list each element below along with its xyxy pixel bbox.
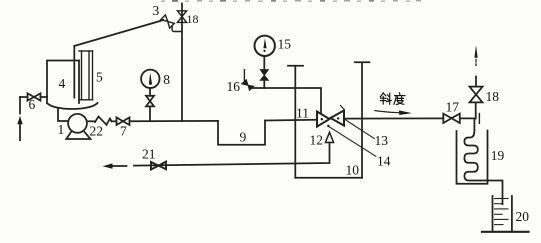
pipe: drain from valve 12: [134, 143, 330, 166]
pipe: U-dip section 9: [218, 121, 265, 145]
union tick at tee: [478, 114, 480, 124]
pipe: main line to U-dip: [130, 120, 219, 122]
valve 6: [28, 93, 35, 100]
valve 18 (right vent valve): [470, 87, 483, 95]
valve 17: [443, 114, 451, 123]
tank 4 (feed vessel): [47, 61, 79, 104]
pump 1: [68, 114, 87, 133]
svg-text:11: 11: [296, 106, 309, 121]
label 斜度 (slope) hand-drawn glyphs: [380, 93, 404, 105]
svg-text:10: 10: [346, 163, 360, 178]
feed water inlet arrow: [19, 97, 21, 114]
valve 21: [151, 162, 166, 170]
svg-text:20: 20: [516, 209, 530, 224]
svg-text:16: 16: [227, 79, 241, 94]
svg-text:3: 3: [153, 3, 160, 18]
vent arrow (up): [474, 45, 477, 58]
pipe: stub up to gauge valve: [149, 107, 151, 122]
manometer bottom connecting tube: [295, 177, 362, 179]
svg-text:19: 19: [491, 148, 505, 163]
bench base line: [482, 231, 529, 233]
valve 7: [117, 117, 124, 125]
pipe: sloped line to valve 17: [344, 117, 443, 119]
svg-text:14: 14: [377, 154, 391, 169]
pipe: to three-way valve: [265, 119, 317, 122]
heater element 5 (double-walled column): [79, 50, 93, 52]
three-way valve 11: [317, 111, 344, 127]
valve 18 (top vent valve): [177, 11, 186, 23]
pipe: inlet to valve 6: [20, 96, 28, 98]
riser pipe from inside tank: [73, 46, 75, 98]
pipe: gauge 15 header line: [252, 88, 322, 114]
leader line to 14: [330, 127, 376, 156]
pipe: vapor line from tank riser to valve 3 (diagonal): [74, 20, 163, 46]
svg-text:13: 13: [375, 133, 389, 148]
svg-text:7: 7: [120, 124, 127, 139]
manometer tap right (T-capped tube): [355, 62, 370, 178]
pipe: valve to gauge 8: [149, 88, 151, 96]
pipe: stub to gauge 15 valve: [263, 80, 265, 88]
condenser coil 19: [464, 118, 502, 204]
condenser water bath vessel: [457, 131, 488, 184]
svg-text:6: 6: [29, 97, 36, 112]
svg-text:22: 22: [90, 124, 104, 139]
manometer tap left (T-capped tube): [288, 66, 303, 178]
gauge valve under gauge 8: [146, 96, 154, 101]
graduated cylinder 20: [493, 196, 512, 232]
valve 16 (angle sampling valve): [243, 70, 245, 81]
pipe above valve 18: [475, 77, 477, 87]
svg-text:4: 4: [59, 76, 66, 91]
leader line to 13: [345, 120, 374, 139]
pressure gauge 15: [255, 36, 275, 56]
svg-text:18: 18: [486, 89, 500, 104]
cut-off caption text at top edge: [161, 0, 421, 2]
slope direction arrow: [375, 111, 400, 113]
svg-text:1: 1: [58, 122, 65, 137]
graduation marks: [495, 199, 509, 225]
pipe: riser to valve 18 (right): [475, 102, 477, 118]
flexible connector 22: [95, 117, 112, 125]
pressure gauge 8: [141, 70, 159, 88]
pipe: valve to gauge 15: [263, 56, 265, 69]
pipe: valve 17 to tee: [460, 117, 476, 119]
svg-text:21: 21: [142, 146, 156, 161]
pipe: valve 6 to tank: [41, 96, 48, 98]
svg-text:9: 9: [240, 130, 247, 145]
elbow from valve 3 to vent riser: [172, 26, 182, 31]
svg-text:15: 15: [278, 36, 292, 51]
pipe: pump discharge: [87, 120, 95, 122]
gauge valve under gauge 15: [260, 70, 268, 81]
drain port valve 12 (triangle): [325, 132, 333, 142]
svg-text:8: 8: [163, 72, 170, 87]
drain outflow arrow: [112, 165, 127, 167]
pipe: vent riser (valve 18 line): [181, 4, 183, 122]
svg-text:12: 12: [310, 133, 324, 148]
valve 3 (angle valve at end of diagonal): [161, 15, 175, 28]
pipe: tank outlet to pump: [58, 109, 68, 122]
svg-text:5: 5: [96, 70, 103, 85]
svg-text:18: 18: [187, 12, 199, 26]
svg-text:17: 17: [446, 100, 460, 115]
